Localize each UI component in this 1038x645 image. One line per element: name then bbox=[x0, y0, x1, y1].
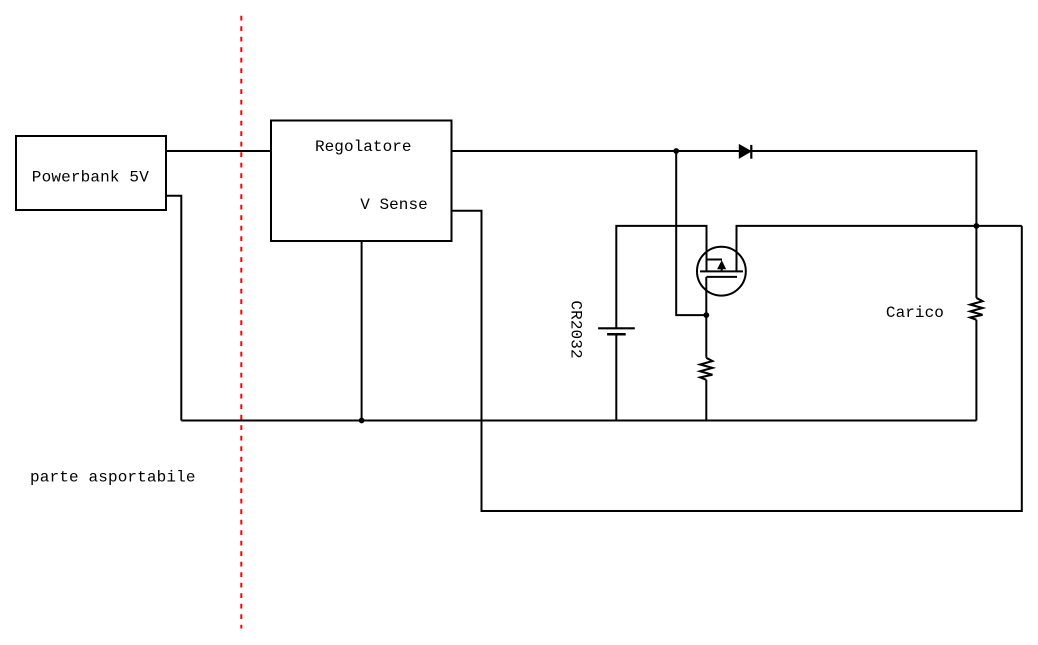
boundary: red dashed separation line bbox=[240, 16, 242, 629]
svg-text:Powerbank 5V: Powerbank 5V bbox=[32, 168, 149, 186]
wire: battery negative lead to rail bbox=[615, 334, 617, 420]
node A junction dot bbox=[673, 148, 679, 154]
diode D1 bbox=[739, 145, 751, 159]
node B junction dot bbox=[974, 223, 980, 229]
wire: Powerbank negative lead down bbox=[166, 196, 181, 421]
transistor Q1 MOSFET bbox=[697, 247, 746, 296]
block: Regolatore bbox=[271, 121, 452, 242]
wire: source lead down from channel bbox=[705, 277, 707, 358]
wire: node A down to source node bbox=[676, 151, 706, 315]
battery CR2032 bbox=[598, 328, 635, 334]
wire: gate lead up and left to battery positive bbox=[616, 226, 706, 328]
svg-text:Regolatore: Regolatore bbox=[315, 138, 412, 156]
svg-text:parte asportabile: parte asportabile bbox=[30, 469, 196, 487]
wire: Powerbank output to Regolatore input bbox=[166, 150, 271, 152]
resistor R1 bbox=[700, 358, 712, 380]
wire: bottom ground rail bbox=[181, 420, 976, 422]
block: Powerbank 5V bbox=[16, 136, 166, 210]
node: source junction dot bbox=[703, 312, 709, 318]
node: ground rail junction dot bbox=[359, 418, 365, 424]
wire: drain lead up and right to node B and far corner bbox=[737, 226, 1022, 272]
wire: Regolatore ground lead bbox=[361, 241, 363, 421]
wire: V Sense feedback loop bbox=[452, 211, 1022, 511]
wire: node B to resistor R2 bbox=[975, 226, 977, 298]
wire: resistor R1 to rail bbox=[705, 380, 707, 421]
svg-text:CR2032: CR2032 bbox=[567, 300, 585, 358]
svg-text:Carico: Carico bbox=[886, 304, 944, 322]
svg-text:V Sense: V Sense bbox=[360, 196, 428, 214]
wire: resistor R2 to rail bbox=[975, 320, 977, 421]
resistor R2 Carico bbox=[970, 298, 982, 320]
wire: Regolatore output to top-right corner down to node B bbox=[452, 151, 977, 226]
